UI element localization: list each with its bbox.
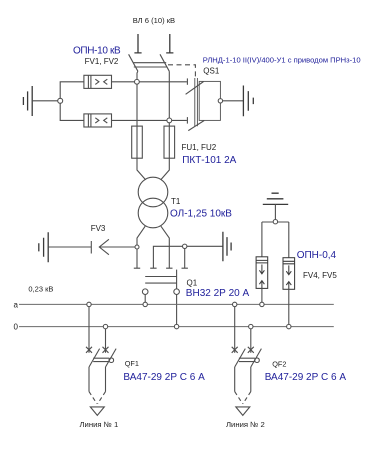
node FV3 tap [135, 245, 139, 249]
QF1 outgoing wires [89, 367, 106, 392]
node phase B [167, 118, 172, 123]
transformer T1 winding 2 [138, 198, 168, 228]
wire neutral to ground [153, 246, 222, 268]
QF1 pole a wire [88, 307, 90, 353]
grounding knife top [186, 82, 204, 95]
svg-text:Q1: Q1 [187, 279, 198, 288]
svg-text:0,23 кВ: 0,23 кВ [28, 284, 53, 293]
breaker QF2 [232, 307, 262, 416]
switch Q1 terminal a [142, 289, 148, 295]
svg-text:QF1: QF1 [125, 359, 139, 368]
fuse FU1 [132, 126, 143, 158]
QF2 outgoing wires [235, 367, 251, 392]
QF2 pole a wire [234, 307, 236, 353]
breaker QF1 [86, 307, 116, 416]
svg-text:ПКТ-101 2А: ПКТ-101 2А [182, 155, 236, 166]
FV3 electrode bar [90, 241, 92, 254]
bus node Q1 a [143, 302, 147, 306]
incoming line contact B [166, 34, 173, 53]
QF1 linkage [93, 358, 109, 361]
wire Q1 to bus 0 [176, 295, 178, 325]
QF2 linkage [239, 358, 255, 361]
QF1 blade a [89, 349, 100, 367]
wire top contact row [112, 81, 187, 83]
busbar 0 [19, 326, 334, 328]
QF2 dashed converge [235, 392, 251, 404]
fixed contact bottom bar [186, 117, 188, 124]
switch Q1 bridge [145, 277, 176, 284]
ground FV3 [39, 232, 48, 262]
svg-text:FU1, FU2: FU1, FU2 [182, 143, 217, 152]
QF2 pole a contact X [232, 347, 238, 353]
switch Q1 contacts [134, 267, 188, 269]
bus node QF2 0 [249, 324, 253, 328]
FV3 arrow [99, 239, 135, 254]
wire FV4 to bus a [261, 288, 263, 302]
QF1 latch ring [109, 358, 114, 363]
svg-text:FV4, FV5: FV4, FV5 [303, 271, 337, 280]
wire FV3 ground lead [48, 246, 91, 248]
transformer T1 winding 1 [138, 177, 168, 207]
svg-text:ВА47-29 2Р С 6 А: ВА47-29 2Р С 6 А [123, 372, 205, 383]
wire ground to node [33, 100, 58, 102]
wire ground drop [274, 204, 276, 219]
wire Q1 to bus a [144, 295, 146, 303]
busbar a [19, 303, 334, 305]
svg-text:QF2: QF2 [272, 360, 286, 369]
disconnector QS1 blade B [160, 54, 169, 71]
surge arrester FV1 [84, 75, 112, 88]
QF1 pole 0 wire [105, 329, 107, 353]
switch Q1 terminal 0 [174, 289, 180, 295]
fuse FU2 [164, 126, 175, 158]
QF1 pole a contact X [86, 347, 92, 353]
wire neutral drop [184, 249, 186, 269]
svg-text:ОПН-10 кВ: ОПН-10 кВ [73, 46, 121, 57]
QF2 line arrow [236, 407, 250, 416]
QF1 dashed converge [89, 392, 106, 404]
QS1 drive shaft [195, 78, 198, 126]
switch Q1 stem [176, 270, 178, 289]
disconnector QS1 blade A [129, 54, 138, 71]
QF2 pole 0 contact X [248, 347, 254, 353]
svg-text:а: а [14, 301, 19, 310]
wire FV5 to bus 0 [288, 289, 290, 324]
node phase A [135, 79, 140, 84]
bus node FV4 a [260, 302, 264, 306]
wire to QS1 ground [223, 100, 243, 102]
wire T1 secondary left [137, 226, 145, 268]
svg-text:QS1: QS1 [203, 67, 220, 76]
bus node Q1 0 [174, 324, 178, 328]
surge arrester FV5 [283, 258, 295, 290]
QF1 pole 0 contact X [103, 347, 109, 353]
QF2 blade a [235, 349, 246, 367]
QF2 blade 0 [251, 349, 262, 367]
QF1 line arrow [90, 407, 104, 416]
bus node QF1 0 [103, 324, 107, 328]
svg-text:ВН32 2Р 20 А: ВН32 2Р 20 А [186, 288, 250, 299]
wire arrester feeders [60, 82, 84, 121]
ground T1 neutral [223, 232, 231, 261]
QS1 frame box [199, 81, 220, 120]
svg-text:Линия № 1: Линия № 1 [80, 420, 119, 429]
svg-text:0: 0 [14, 323, 19, 332]
surge arrester FV4 [256, 257, 268, 289]
surge arrester FV2 [84, 114, 112, 127]
QS1 linkage bar [133, 63, 167, 67]
ground FV4 FV5 [263, 193, 288, 204]
wire T1 secondary right [161, 226, 169, 268]
svg-text:ВЛ 6 (10) кВ: ВЛ 6 (10) кВ [133, 16, 175, 25]
svg-text:РЛНД-1-10 II(IV)/400-У1 с прив: РЛНД-1-10 II(IV)/400-У1 с приводом ПРНз-… [203, 56, 361, 65]
grounding knife bottom [188, 121, 204, 131]
svg-text:ОЛ-1,25 10кВ: ОЛ-1,25 10кВ [170, 208, 232, 219]
wire bottom contact row [112, 119, 187, 121]
QS1 drive dashed link [168, 65, 195, 78]
fixed contact top bar [186, 78, 188, 84]
wire arrester tee [262, 222, 289, 258]
incoming line contact A [134, 34, 141, 53]
node neutral [183, 244, 187, 248]
svg-text:Линия № 2: Линия № 2 [226, 420, 265, 429]
svg-text:Т1: Т1 [171, 197, 181, 206]
ground left (FV1 FV2) [23, 86, 32, 116]
svg-text:FV1, FV2: FV1, FV2 [85, 57, 119, 66]
bus node QF1 a [87, 302, 91, 306]
bus node QF2 a [233, 302, 237, 306]
svg-text:ОПН-0,4: ОПН-0,4 [297, 250, 337, 261]
QF2 latch ring [255, 358, 260, 363]
wire phase A upper [137, 71, 146, 180]
node arrester tee [273, 220, 277, 224]
ground QS1 [243, 86, 253, 117]
node on QS1 frame [218, 99, 222, 103]
QF2 pole 0 wire [250, 329, 252, 353]
wire phase B upper [161, 71, 170, 180]
node FV1 FV2 [58, 98, 63, 103]
QF1 blade 0 [106, 349, 117, 367]
bus node FV5 0 [287, 324, 291, 328]
svg-text:ВА47-29 2Р С 6 А: ВА47-29 2Р С 6 А [265, 372, 347, 383]
svg-text:FV3: FV3 [91, 224, 106, 233]
